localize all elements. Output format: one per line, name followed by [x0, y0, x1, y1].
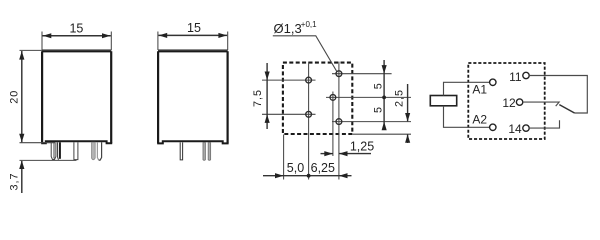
svg-text:7,5: 7,5 [252, 89, 264, 107]
row line hole M [326, 96, 411, 98]
svg-text:5,0: 5,0 [287, 161, 304, 175]
dim 15 (view2) extension lines [157, 32, 159, 51]
svg-text:A2: A2 [472, 113, 487, 127]
svg-text:20: 20 [9, 90, 21, 104]
terminal A2 [490, 124, 496, 130]
row line hole R1 [332, 73, 392, 75]
svg-text:A1: A1 [472, 83, 487, 97]
wire 11 to pivot [529, 76, 587, 114]
construction line left hole column [308, 62, 310, 180]
hole R1 [336, 71, 342, 77]
terminal A1 [490, 79, 496, 85]
hole L1 [306, 77, 312, 83]
relay body front flange bottom [41, 141, 112, 143]
svg-text:5: 5 [372, 83, 384, 89]
wire coil to A1 [444, 82, 490, 95]
switch arm [559, 105, 574, 113]
dim 5/5 dimension line [383, 60, 385, 129]
row line hole L1 [262, 79, 316, 81]
footprint dashed outline [283, 63, 352, 134]
dim 15 (view1) dimension line [43, 35, 111, 37]
svg-text:15: 15 [187, 21, 201, 35]
dim 3,7 extension line [20, 159, 77, 161]
svg-text:3,7: 3,7 [8, 172, 20, 190]
cover seam thin line (view2) [158, 49, 228, 51]
bottom dimension line 5,0 / 6,25 [263, 175, 352, 177]
relay body side flange bottom [157, 141, 228, 143]
dim 15 (view1) extension lines [41, 32, 43, 51]
hole M [330, 95, 336, 101]
wire 14 NO contact [529, 120, 559, 128]
svg-text:14: 14 [508, 122, 522, 136]
dim 20 dimension line [21, 51, 23, 142]
relay dashed boundary [468, 63, 544, 139]
pin P6 gray (view2) [203, 142, 205, 160]
hole R2 [336, 119, 342, 125]
svg-text:+0,1: +0,1 [301, 20, 317, 29]
dim 20 extension lines [20, 49, 43, 51]
dia 1,3 leader line [273, 36, 337, 72]
construction line right hole column [338, 62, 340, 180]
pin P5 single (view2) [180, 142, 182, 160]
pin P4 (view1) [97, 142, 101, 160]
terminal 11 [523, 72, 529, 78]
wire 12 NC contact [523, 102, 559, 106]
svg-text:15: 15 [69, 22, 83, 36]
construction line footprint left edge down [283, 135, 285, 180]
pin P7 gray (view2) [208, 142, 210, 160]
row line hole L2 [262, 113, 316, 115]
terminal 14 [523, 125, 529, 131]
relay body front outline [42, 51, 111, 143]
row line hole R2 [332, 121, 411, 123]
svg-text:1,25: 1,25 [350, 139, 374, 153]
svg-text:6,25: 6,25 [311, 161, 335, 175]
svg-text:2,5: 2,5 [394, 89, 406, 107]
cover seam thin line [42, 49, 111, 51]
pin P3 gray (view1) [92, 142, 96, 159]
construction line middle hole [332, 92, 334, 157]
svg-text:5: 5 [372, 107, 384, 113]
dim 3,7 dimension line [21, 161, 23, 193]
svg-text:12: 12 [502, 96, 516, 110]
footprint bottom edge extension right [353, 133, 412, 135]
dim 1,25 dimension line [321, 153, 333, 155]
dim 7,5 dimension line [266, 63, 268, 129]
terminal 12 [516, 99, 522, 105]
dim 2,5 dimension line [407, 84, 409, 121]
pin P1 pair left (view1) [51, 142, 58, 160]
dim 15 (view2) dimension line [158, 34, 227, 36]
wire coil to A2 [444, 106, 490, 128]
pin P2 middle (view1) [74, 142, 78, 159]
relay body side outline [158, 51, 228, 143]
svg-text:Ø1,3: Ø1,3 [274, 21, 302, 36]
svg-text:11: 11 [509, 70, 522, 84]
coil K1 [430, 96, 456, 106]
hole L2 [306, 111, 312, 117]
